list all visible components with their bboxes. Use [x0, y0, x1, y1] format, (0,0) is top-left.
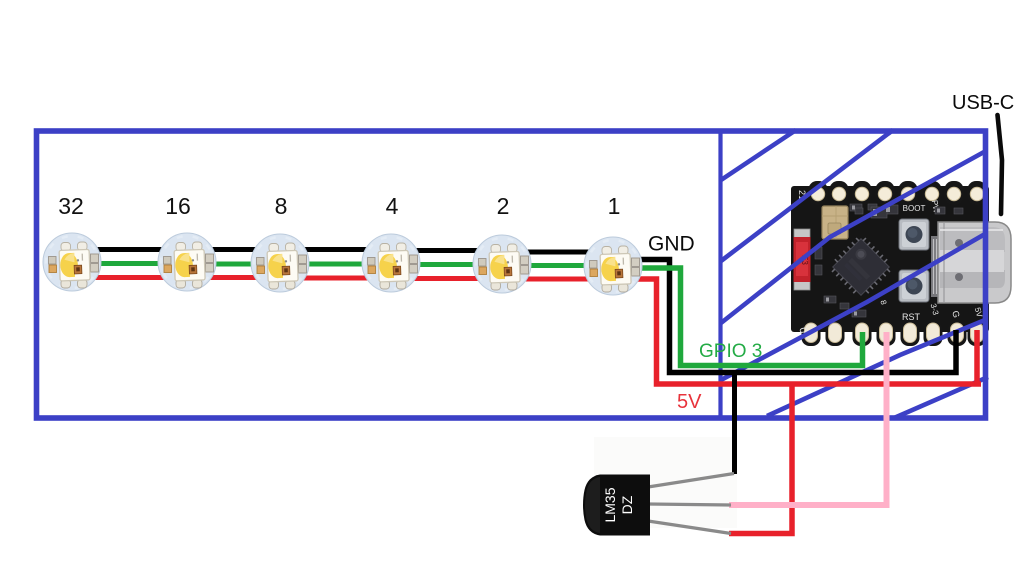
svg-text:2: 2: [497, 193, 510, 219]
wire 5V red branch down to LM35: [729, 384, 792, 534]
wire segment green LED8-LED4: [302, 262, 369, 267]
wire segment green LED2-LED1: [524, 263, 592, 268]
wire segment black LED16-LED8: [205, 247, 262, 252]
LM35 leg 1 (Vs): [648, 474, 734, 488]
hatch diagonal 1: [721, 130, 796, 180]
red fuse component F1: [794, 229, 811, 290]
wire GND black: LED1 to board G pin: [634, 260, 956, 373]
svg-text:LM35: LM35: [602, 487, 618, 522]
wire segment green LED16-LED8: [209, 262, 259, 267]
svg-text:16: 16: [165, 193, 191, 219]
hatch diagonal 4: [721, 234, 985, 380]
wire GPIO3 green: LED1 to board pin 3: [634, 268, 863, 366]
ESP32-C3 chip U2 (rotated): [827, 233, 895, 301]
RST button SW2: [899, 270, 929, 302]
wire pink: LM35 middle leg to board pin 4: [729, 332, 887, 505]
wire segment green LED4-LED2: [413, 262, 480, 267]
wire segment red LED4-LED2: [413, 276, 480, 281]
svg-text:USB-C: USB-C: [952, 92, 1014, 114]
wire segment green LED32-LED16: [94, 261, 166, 266]
svg-text:RST: RST: [902, 312, 921, 322]
small passive components: [815, 204, 963, 317]
wire segment black LED32-LED16: [90, 247, 169, 252]
hatch diagonal 3: [721, 152, 984, 323]
wire segment red LED32-LED16: [94, 275, 166, 280]
wire segment black LED2-LED1: [520, 250, 595, 255]
LED module D1: [584, 237, 642, 295]
hatch diagonal 6: [894, 377, 988, 418]
wire GND black branch to LM35: [732, 373, 737, 475]
LM35 photo background patch: [594, 437, 737, 528]
LED module D16: [158, 233, 216, 291]
top castellated pins: [809, 181, 987, 205]
microcontroller board U1 body: [791, 186, 989, 332]
LED module D32: [43, 233, 101, 291]
hatch area divider line: [718, 131, 722, 418]
hatch diagonal 2: [721, 130, 893, 261]
svg-text:32: 32: [58, 193, 84, 219]
svg-text:1: 1: [608, 193, 621, 219]
USB-C pointer line: [998, 115, 1003, 214]
hatch diagonal 5: [767, 320, 985, 416]
LM35 TO-92 body: [583, 475, 650, 536]
LED module D4: [362, 234, 420, 292]
main enclosure rectangle: [37, 131, 986, 418]
LM35 leg 3 (GND): [648, 521, 731, 534]
wire segment red LED8-LED4: [302, 276, 369, 281]
svg-text:4: 4: [386, 193, 399, 219]
wire segment black LED8-LED4: [298, 247, 372, 252]
LED module D2: [473, 235, 531, 293]
svg-text:8: 8: [275, 193, 288, 219]
wire segment red LED16-LED8: [209, 275, 259, 280]
wire segment red LED2-LED1: [524, 277, 592, 282]
svg-text:5V: 5V: [677, 391, 702, 413]
wire 5V red: LED1 to board 5V pin: [634, 279, 981, 384]
svg-text:DZ: DZ: [619, 495, 635, 514]
bottom castellated pins: [802, 322, 987, 346]
BOOT button SW1: [899, 219, 929, 250]
LM35 leg 2 (Vout): [648, 504, 731, 505]
wire segment black LED4-LED2: [409, 248, 483, 253]
LED module D8: [251, 234, 309, 292]
svg-text:GND: GND: [648, 233, 695, 256]
svg-text:BOOT: BOOT: [903, 204, 926, 213]
svg-text:GPIO 3: GPIO 3: [699, 341, 762, 362]
USB-C connector J1: [931, 222, 1011, 303]
crystal oscillator Y1: [822, 206, 848, 239]
